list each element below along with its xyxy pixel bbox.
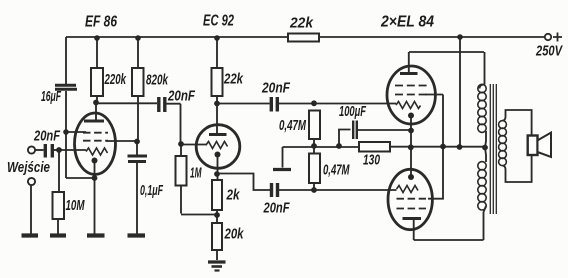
svg-text:130: 130: [363, 153, 380, 169]
svg-text:250V: 250V: [535, 44, 563, 60]
svg-text:10M: 10M: [66, 198, 86, 214]
svg-text:220k: 220k: [104, 72, 127, 88]
svg-text:22k: 22k: [223, 72, 244, 88]
svg-text:2×EL 84: 2×EL 84: [380, 14, 434, 31]
svg-text:EF 86: EF 86: [85, 14, 117, 31]
svg-text:20nF: 20nF: [33, 129, 61, 145]
svg-text:20k: 20k: [224, 227, 245, 243]
svg-text:20nF: 20nF: [167, 89, 196, 105]
svg-text:EC 92: EC 92: [203, 13, 234, 30]
svg-text:2k: 2k: [226, 188, 241, 204]
svg-text:0,47M: 0,47M: [279, 118, 307, 134]
svg-text:820k: 820k: [146, 73, 169, 89]
svg-text:16μF: 16μF: [41, 89, 62, 105]
svg-text:20nF: 20nF: [263, 201, 291, 217]
svg-text:0,47M: 0,47M: [323, 163, 350, 179]
svg-text:1M: 1M: [190, 166, 202, 182]
svg-text:Wejście: Wejście: [7, 160, 50, 176]
svg-text:0,1μF: 0,1μF: [140, 183, 164, 199]
svg-text:22k: 22k: [289, 16, 314, 32]
svg-text:20nF: 20nF: [261, 81, 291, 97]
svg-text:100μF: 100μF: [339, 104, 367, 120]
